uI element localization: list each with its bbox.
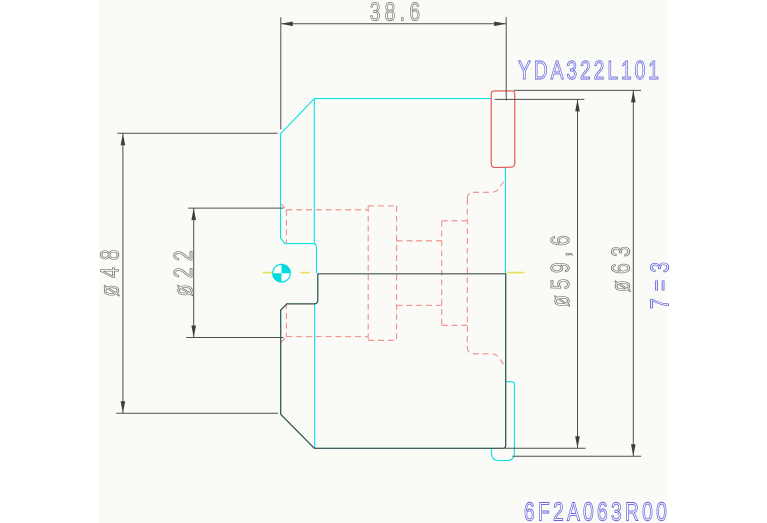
part outline lower half (dark) (281, 274, 506, 449)
dimension: phi48 (left) (116, 133, 278, 413)
bore chamfer stubs left (281, 204, 287, 210)
svg-text:ø59,6: ø59,6 (545, 235, 575, 307)
relief groove rectangle (368, 206, 396, 340)
opening curve top (467, 181, 505, 199)
svg-text:38.6: 38.6 (370, 0, 420, 26)
label: 6F2A063R00 (blue) (524, 497, 667, 523)
clamping tab lower (cyan) (492, 382, 515, 461)
shoulder x=467.3 (466, 199, 468, 347)
svg-text:ø48: ø48 (95, 250, 125, 297)
drawing canvas background (99, 0, 668, 523)
clamping screw detail (red solid rounded rect) (491, 91, 515, 168)
svg-text:YDA322L101: YDA322L101 (518, 55, 659, 85)
dimension: phi22 (left inner) (186, 208, 283, 337)
opening curve bottom (467, 347, 505, 365)
dimension: 38.6 (top) (281, 17, 506, 129)
dimension: phi59,6 (right) (495, 99, 586, 448)
step walls phi11 (397, 240, 442, 242)
bore left face verticals (285, 210, 287, 243)
part outline upper half (cyan) (281, 99, 506, 273)
centerline (yellow dashed) (263, 272, 525, 274)
step walls phi18 (442, 220, 468, 222)
hidden bore profile (red dashed) (281, 181, 506, 365)
part outline lower half mirror (cyan, under dark) (281, 273, 506, 448)
shoulder x=441.7 (441, 221, 443, 325)
bore wall phi22 top / bottom (286, 209, 368, 211)
label: YDA322L101 (blue) (518, 55, 659, 85)
svg-text:7=3: 7=3 (645, 262, 675, 309)
dimension: phi63 (far right) (512, 90, 641, 456)
center of mass symbol (273, 264, 291, 282)
svg-text:ø63: ø63 (606, 246, 636, 292)
label: 7=3 (blue, rotated) (645, 262, 675, 309)
svg-text:ø22: ø22 (168, 250, 198, 296)
